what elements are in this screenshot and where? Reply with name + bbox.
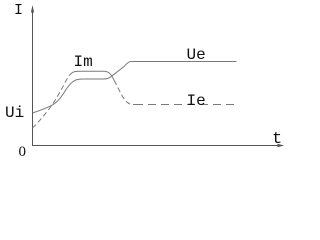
svg-text:0: 0 [19, 144, 27, 159]
svg-text:Im: Im [74, 53, 93, 71]
svg-text:Ue: Ue [187, 46, 206, 64]
svg-text:Ui: Ui [5, 104, 24, 122]
svg-text:t: t [272, 130, 282, 149]
svg-text:I: I [14, 2, 23, 19]
svg-text:Ie: Ie [187, 92, 206, 110]
